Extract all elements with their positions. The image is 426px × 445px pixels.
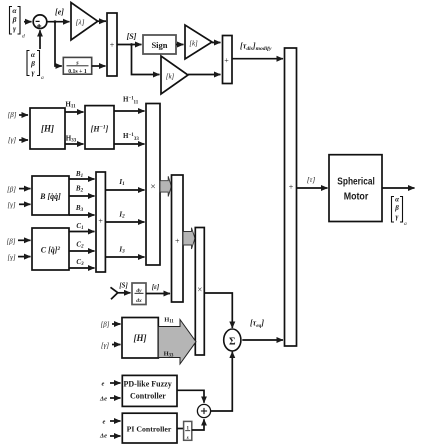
svg-text:d: d <box>22 34 25 40</box>
svg-text:I2: I2 <box>118 210 125 220</box>
svg-text:β: β <box>12 15 17 24</box>
svg-text:+: + <box>289 183 294 192</box>
svg-text:γ: γ <box>396 213 399 221</box>
svg-text:[γ]: [γ] <box>8 136 16 144</box>
svg-text:[e]: [e] <box>55 8 64 17</box>
svg-text:Σ: Σ <box>229 337 236 348</box>
svg-text:e: e <box>102 381 105 388</box>
svg-text:[λ]: [λ] <box>75 18 84 27</box>
svg-text:C3: C3 <box>76 258 84 267</box>
svg-text:+: + <box>175 237 180 246</box>
svg-text:[β]: [β] <box>7 237 16 245</box>
svg-text:H−133: H−133 <box>123 132 139 142</box>
svg-text:[ε]: [ε] <box>152 283 160 291</box>
svg-text:dx: dx <box>136 298 142 304</box>
svg-text:[S]: [S] <box>127 32 137 41</box>
svg-text:×: × <box>150 183 155 193</box>
svg-text:Controller: Controller <box>130 391 166 400</box>
svg-text:Sign: Sign <box>151 40 167 50</box>
svg-text:+: + <box>110 41 115 50</box>
svg-text:Spherical: Spherical <box>337 176 375 188</box>
svg-text:e: e <box>103 418 106 425</box>
svg-text:[β]: [β] <box>8 111 17 119</box>
svg-text:[k]: [k] <box>166 73 175 81</box>
svg-text:[S]: [S] <box>119 282 128 290</box>
svg-text:I1: I1 <box>118 177 125 187</box>
svg-text:[H]: [H] <box>134 333 147 343</box>
svg-text:B [q̇q̇]: B [q̇q̇] <box>39 192 61 201</box>
svg-text:α: α <box>31 50 36 59</box>
svg-text:s: s <box>186 436 189 441</box>
svg-text:C1: C1 <box>76 222 83 231</box>
svg-text:H11: H11 <box>65 101 76 110</box>
svg-text:H11: H11 <box>164 317 174 325</box>
svg-text:Motor: Motor <box>344 191 369 203</box>
svg-text:γ: γ <box>13 24 17 33</box>
svg-text:β: β <box>30 59 35 68</box>
svg-text:dy: dy <box>136 288 142 294</box>
svg-text:C2: C2 <box>76 241 84 250</box>
svg-text:[τeq]: [τeq] <box>250 319 264 330</box>
svg-text:PI Controller: PI Controller <box>127 425 172 434</box>
svg-text:γ: γ <box>31 68 35 77</box>
svg-text:[β]: [β] <box>101 321 110 329</box>
svg-text:B3: B3 <box>75 204 84 213</box>
svg-text:×: × <box>197 285 202 295</box>
svg-text:0.1s + 1: 0.1s + 1 <box>68 69 87 75</box>
svg-text:Δe: Δe <box>99 396 107 403</box>
svg-text:+: + <box>224 56 229 65</box>
svg-text:Δe: Δe <box>99 433 107 440</box>
svg-text:a: a <box>404 221 407 227</box>
svg-text:[τdis]modify: [τdis]modify <box>240 42 272 53</box>
svg-text:[β]: [β] <box>7 185 16 193</box>
svg-text:+: + <box>98 217 103 226</box>
svg-text:[τ]: [τ] <box>307 175 316 184</box>
svg-text:[γ]: [γ] <box>101 342 109 350</box>
svg-text:[k]: [k] <box>189 40 198 48</box>
svg-text:[γ]: [γ] <box>7 254 15 262</box>
svg-text:H33: H33 <box>66 135 77 144</box>
svg-text:B1: B1 <box>75 170 83 179</box>
svg-text:β: β <box>394 204 399 212</box>
svg-text:a: a <box>41 75 44 81</box>
svg-text:PD-like Fuzzy: PD-like Fuzzy <box>123 379 171 388</box>
svg-text:B2: B2 <box>75 185 84 194</box>
svg-text:α: α <box>395 196 399 204</box>
svg-text:[H]: [H] <box>41 124 54 134</box>
svg-text:H−111: H−111 <box>123 96 139 106</box>
svg-text:s: s <box>75 60 79 67</box>
svg-text:[γ]: [γ] <box>7 201 15 209</box>
svg-text:α: α <box>12 6 17 15</box>
svg-text:I3: I3 <box>118 245 125 255</box>
